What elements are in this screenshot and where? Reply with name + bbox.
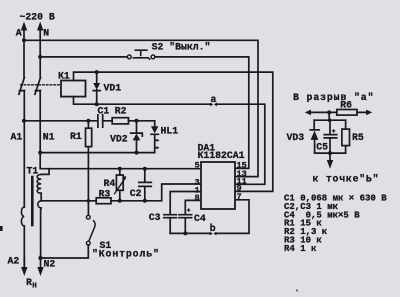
svg-text:8: 8 [195, 193, 200, 203]
svg-text:К1: К1 [58, 71, 70, 82]
svg-text:b: b [210, 223, 216, 234]
svg-text:A1: A1 [11, 132, 23, 143]
svg-text:VD2: VD2 [110, 134, 128, 145]
svg-text:R4 1 к: R4 1 к [284, 244, 317, 254]
svg-text:С5: С5 [316, 142, 328, 153]
svg-text:В разрыв "а": В разрыв "а" [293, 92, 374, 103]
svg-text:R3: R3 [99, 189, 111, 200]
svg-text:~220 В: ~220 В [20, 12, 55, 23]
svg-text:7: 7 [237, 192, 242, 202]
svg-text:N2: N2 [44, 259, 56, 270]
svg-text:N: N [43, 28, 49, 39]
svg-text:R1: R1 [70, 131, 82, 142]
svg-text:C1: C1 [98, 106, 110, 117]
svg-text:A2: A2 [8, 256, 20, 267]
svg-text:"Контроль": "Контроль" [92, 249, 160, 260]
svg-text:Н: Н [32, 283, 37, 291]
svg-text:VD3: VD3 [287, 132, 305, 143]
svg-text:R4: R4 [104, 178, 116, 189]
svg-text:A: A [16, 28, 22, 39]
svg-text:R6: R6 [340, 100, 352, 111]
svg-text:HL1: HL1 [161, 126, 179, 137]
svg-text:C3: C3 [149, 212, 161, 223]
svg-text:T1: T1 [27, 166, 39, 177]
svg-text:R2: R2 [115, 106, 127, 117]
svg-text:S2 "Выкл.": S2 "Выкл." [152, 42, 211, 53]
svg-text:C4: C4 [194, 213, 206, 224]
svg-text:К1182СА1: К1182СА1 [198, 150, 245, 161]
svg-text:N1: N1 [43, 132, 55, 143]
svg-text:5: 5 [195, 161, 200, 171]
svg-text:R5: R5 [352, 132, 364, 143]
svg-text:R: R [26, 277, 32, 288]
svg-text:C2: C2 [130, 188, 142, 199]
svg-text:к точке"Ь": к точке"Ь" [313, 174, 380, 185]
svg-text:VD1: VD1 [104, 83, 122, 94]
svg-text:a: a [211, 94, 217, 105]
